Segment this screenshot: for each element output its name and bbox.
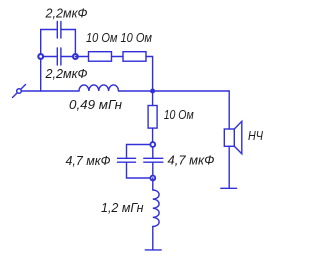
node C (top) [150, 142, 155, 147]
svg-text:2,2мкФ: 2,2мкФ [45, 66, 88, 81]
resistor R2 10 Ом [123, 52, 146, 62]
resistor R1 10 Ом [89, 52, 112, 62]
wire: R2 to junction [146, 57, 153, 92]
capacitor C1 2,2мкФ (top) [57, 22, 61, 39]
ground (bottom) [145, 249, 161, 251]
inductor L2 1,2 мГн [153, 190, 159, 227]
wire: top branch right [61, 29, 76, 31]
wire: middle cap bottom lead [152, 162, 154, 178]
input terminal X1 [13, 85, 26, 98]
resistor R3 10 Ом [148, 106, 157, 129]
wire: down to loudspeaker [228, 91, 230, 129]
svg-text:4,7 мкФ: 4,7 мкФ [66, 153, 111, 168]
capacitor C4 4,7 мкФ (middle) [144, 158, 163, 162]
wire: node D to L2 [152, 178, 154, 190]
wire: loudspeaker to ground [228, 146, 230, 188]
wire: right riser of capacitor loop [74, 30, 76, 57]
wire: terminal to inductor L1 [21, 90, 79, 92]
wire: top branch left [41, 29, 58, 31]
wire: L2 to ground [152, 227, 154, 250]
svg-text:0,49 мГн: 0,49 мГн [69, 97, 122, 112]
junction (main line) [150, 89, 155, 94]
node D (bottom) [150, 176, 155, 181]
svg-text:2,2мкФ: 2,2мкФ [45, 5, 88, 20]
wire: bottom branch left [41, 56, 58, 58]
wire: left capacitor branch [127, 145, 153, 179]
wire: L1 to right corner [119, 90, 230, 92]
loudspeaker BA1 (НЧ) [224, 121, 242, 154]
svg-text:10 Ом: 10 Ом [164, 107, 194, 122]
capacitor C3 4,7 мкФ (left) [118, 158, 136, 162]
wire: bottom branch right [61, 56, 76, 58]
wire: node B to R1 [75, 56, 88, 58]
svg-text:1,2 мГн: 1,2 мГн [101, 200, 144, 215]
svg-text:4,7 мкФ: 4,7 мкФ [168, 153, 215, 168]
capacitor C2 2,2мкФ (bottom) [57, 48, 61, 65]
wire: R3 to node C [152, 128, 154, 144]
node B (right) [73, 54, 78, 59]
node A (left) [38, 54, 43, 59]
inductor L1 0,49 мГн [79, 85, 119, 91]
svg-text:НЧ: НЧ [248, 128, 263, 143]
wire: middle cap top lead [152, 145, 154, 159]
ground (speaker) [221, 187, 237, 189]
svg-text:10 Ом 10 Ом: 10 Ом 10 Ом [86, 30, 152, 45]
wire: R1 to R2 [112, 56, 124, 58]
wire: junction down to R3 [152, 91, 154, 106]
wire: left riser of capacitor loop [40, 30, 42, 92]
